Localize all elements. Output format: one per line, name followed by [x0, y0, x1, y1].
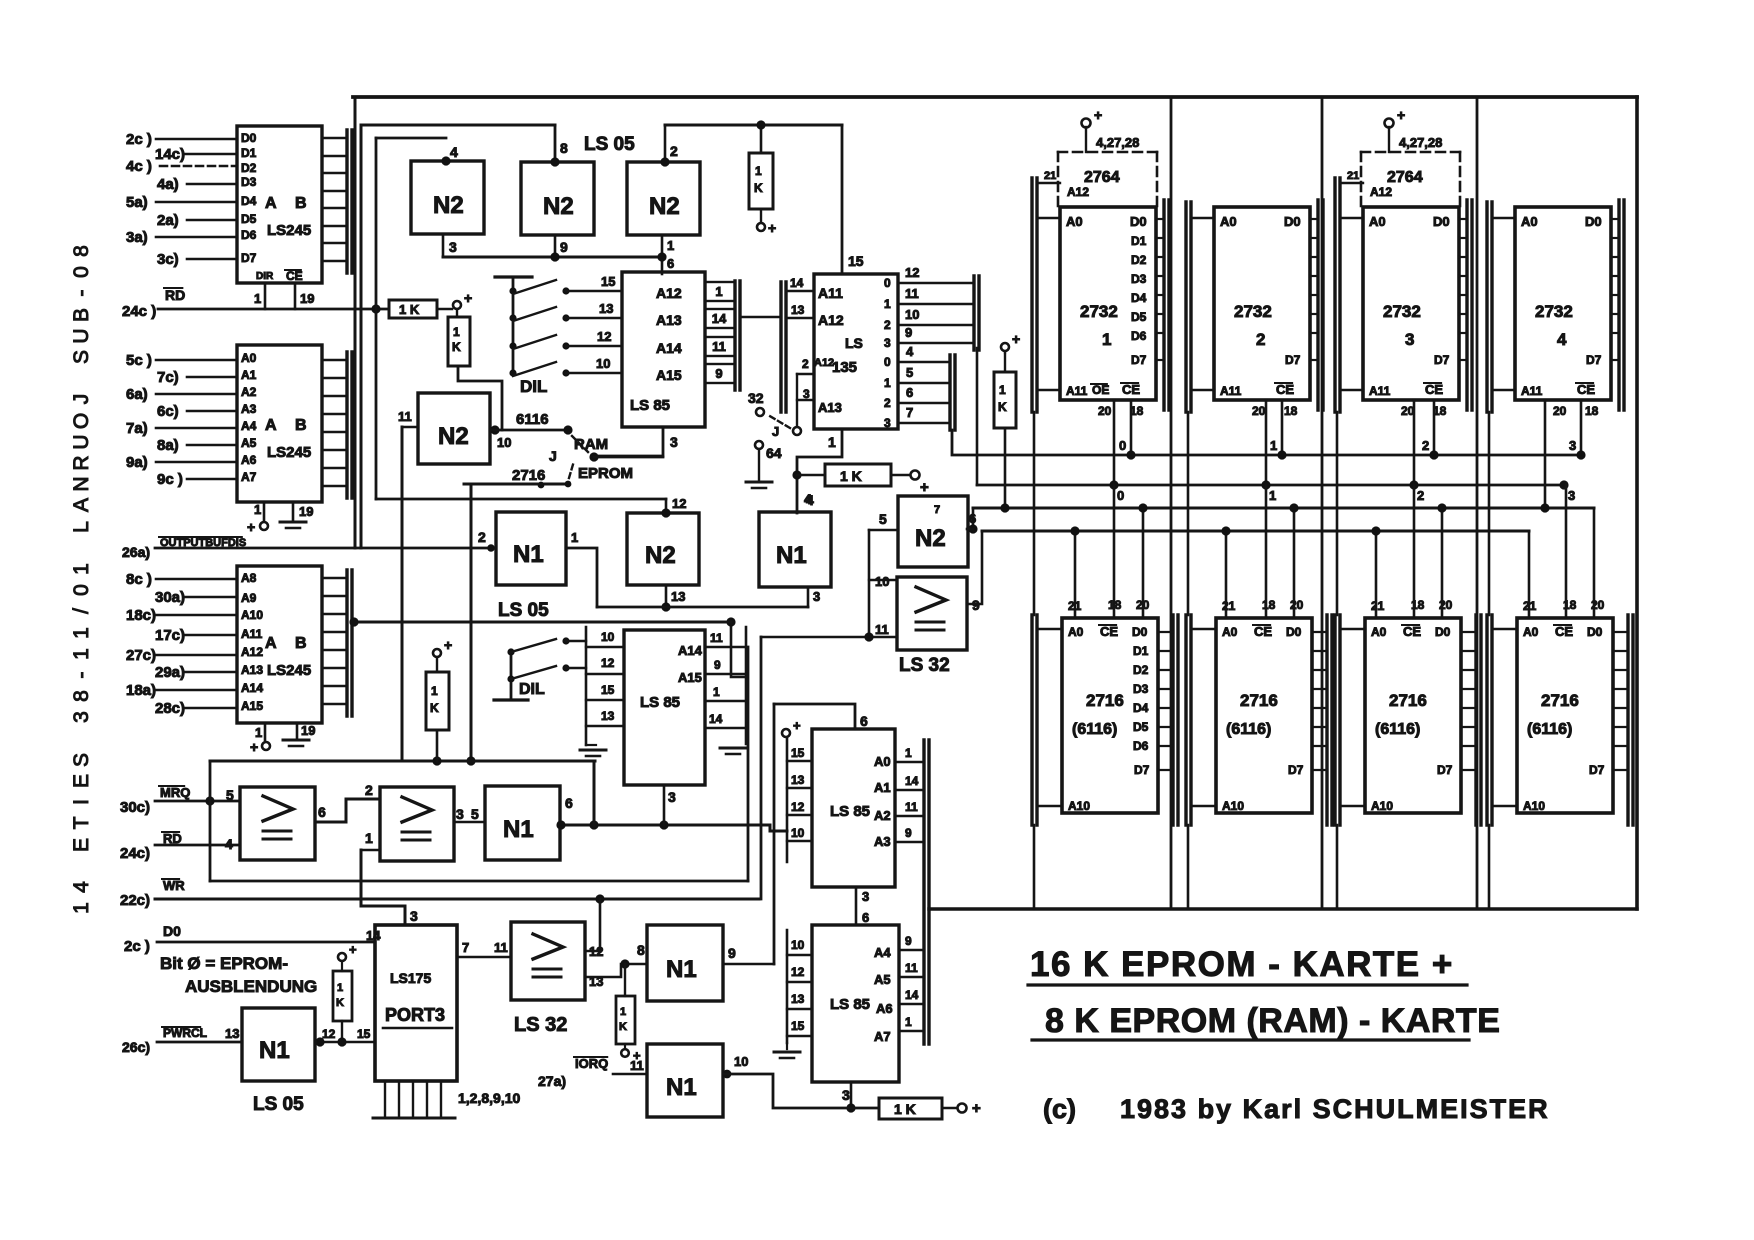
svg-text:11: 11 — [875, 622, 889, 637]
svg-text:D1: D1 — [1131, 234, 1147, 248]
svg-text:1 K: 1 K — [399, 302, 420, 317]
svg-text:1 K: 1 K — [840, 468, 862, 484]
svg-text:N1: N1 — [666, 956, 697, 983]
svg-text:T: T — [70, 816, 93, 829]
svg-text:18a): 18a) — [126, 682, 156, 699]
PORT3 output pin7 — [457, 956, 511, 959]
svg-text:A0: A0 — [1521, 214, 1538, 229]
svg-text:1: 1 — [828, 434, 836, 450]
svg-text:+: + — [349, 942, 357, 957]
svg-text:7: 7 — [934, 504, 940, 516]
svg-text:LS 32: LS 32 — [514, 1014, 567, 1036]
svg-text:U: U — [70, 434, 93, 449]
svg-text:PWRCL: PWRCL — [163, 1026, 207, 1040]
svg-text:9: 9 — [714, 658, 721, 672]
svg-text:A12: A12 — [656, 285, 682, 301]
svg-text:0: 0 — [70, 266, 93, 278]
bus bar left of U5 — [779, 282, 782, 412]
svg-text:1: 1 — [453, 325, 460, 339]
svg-text:1: 1 — [1269, 488, 1276, 503]
svg-text:AUSBLENDUNG: AUSBLENDUNG — [185, 977, 317, 996]
svg-text:K: K — [452, 340, 461, 354]
svg-text:9a): 9a) — [126, 454, 148, 471]
svg-text:A0: A0 — [1523, 625, 1539, 639]
svg-text:A0: A0 — [874, 754, 891, 769]
svg-text:B: B — [295, 195, 307, 212]
svg-text:3: 3 — [1569, 438, 1576, 453]
svg-text:12: 12 — [791, 800, 805, 814]
svg-text:1: 1 — [620, 1006, 626, 1018]
svg-text:12: 12 — [601, 656, 615, 670]
stub U4 bus to U5 bus — [740, 316, 781, 319]
svg-text:11: 11 — [905, 800, 918, 814]
decoder U5 LS135 — [814, 274, 898, 429]
U4 pin3 to EPROM jumper — [594, 427, 663, 456]
svg-text:12: 12 — [589, 944, 603, 959]
svg-text:K: K — [336, 997, 344, 1009]
svg-text:A2: A2 — [241, 385, 257, 399]
svg-text:A14: A14 — [678, 643, 703, 658]
comparator U6 LS85 — [624, 630, 705, 785]
svg-text:N2: N2 — [543, 193, 574, 220]
svg-text:N: N — [70, 476, 93, 491]
svg-text:A12: A12 — [241, 645, 263, 659]
wire pin18 drop — [1265, 485, 1268, 618]
svg-text:B: B — [70, 308, 93, 322]
svg-text:7: 7 — [906, 405, 913, 420]
svg-text:2: 2 — [365, 782, 373, 798]
svg-text:15: 15 — [357, 1027, 371, 1041]
svg-text:7: 7 — [462, 940, 469, 955]
gate N2b LS05 — [521, 162, 594, 235]
U14 left ladder — [786, 930, 789, 1043]
bus bar address — [1485, 202, 1488, 412]
svg-text:EPROM: EPROM — [578, 465, 633, 482]
svg-text:12: 12 — [905, 265, 919, 280]
svg-text:A0: A0 — [1066, 214, 1083, 229]
wire CE drop — [1281, 400, 1284, 455]
bus bar data — [1465, 200, 1468, 410]
connector +5V 2764 — [1082, 119, 1091, 128]
bus bar address — [1333, 178, 1336, 412]
svg-text:D7: D7 — [1288, 763, 1304, 777]
svg-text:1: 1 — [999, 383, 1006, 397]
gate N2c LS05 — [627, 162, 700, 235]
EPROM U10 2732-4 — [1515, 207, 1611, 400]
svg-text:13: 13 — [671, 589, 685, 604]
net CE-select row y455 — [952, 430, 1582, 455]
svg-text:12: 12 — [672, 496, 686, 511]
bus bar data 2716 — [1171, 615, 1174, 825]
gate G2 LS32 — [380, 787, 454, 861]
gate N2e LS05 — [627, 513, 699, 585]
svg-text:D0: D0 — [1585, 214, 1602, 229]
svg-text:10: 10 — [875, 574, 889, 589]
svg-text:J: J — [772, 424, 779, 439]
wire G4 pin13 to N1e pin8 — [585, 964, 647, 977]
resistor R9 1K — [879, 1098, 942, 1119]
svg-text:7a): 7a) — [126, 420, 148, 437]
wire to G3 pin10 — [869, 579, 897, 581]
svg-text:2: 2 — [802, 357, 809, 371]
svg-text:D0: D0 — [1284, 214, 1301, 229]
svg-text:A2: A2 — [874, 808, 891, 823]
svg-text:14: 14 — [709, 712, 723, 726]
svg-text:D0: D0 — [1433, 214, 1450, 229]
svg-text:D5: D5 — [1133, 720, 1149, 734]
svg-text:MRQ: MRQ — [160, 785, 190, 800]
svg-text:8: 8 — [560, 140, 568, 156]
svg-text:2: 2 — [1256, 330, 1265, 349]
svg-text:8: 8 — [70, 245, 93, 257]
U13 pin3 / U14 pin6 — [855, 887, 858, 925]
wire rail y621 — [354, 621, 731, 624]
svg-text:N2: N2 — [915, 525, 946, 552]
svg-text:D0: D0 — [1130, 214, 1147, 229]
svg-text:1: 1 — [1270, 438, 1277, 453]
svg-text:D1: D1 — [1133, 644, 1149, 658]
svg-text:+: + — [1397, 107, 1405, 123]
gate N1f LS05 IORQ — [647, 1044, 723, 1117]
svg-text:9: 9 — [905, 934, 912, 948]
svg-text:10: 10 — [905, 307, 919, 322]
svg-text:11: 11 — [905, 286, 919, 301]
svg-text:(6116): (6116) — [1527, 721, 1572, 738]
svg-text:14c): 14c) — [155, 146, 185, 163]
wire y499 to N2e pin12 — [376, 498, 666, 501]
svg-text:18c): 18c) — [126, 607, 156, 624]
svg-text:A: A — [265, 635, 277, 652]
svg-text:D6: D6 — [241, 228, 257, 242]
svg-text:6116: 6116 — [516, 411, 549, 428]
svg-text:2c ): 2c ) — [126, 131, 152, 148]
svg-text:11: 11 — [712, 339, 726, 354]
svg-text:A3: A3 — [874, 834, 891, 849]
svg-text:D7: D7 — [1589, 763, 1605, 777]
svg-text:K: K — [619, 1021, 627, 1033]
svg-text:(6116): (6116) — [1226, 721, 1271, 738]
wire x869 — [868, 530, 871, 637]
svg-text:-: - — [70, 672, 93, 679]
pin 19 of U2 ground — [292, 502, 295, 520]
U4 right pin boxes — [705, 282, 735, 301]
svg-text:A11: A11 — [1220, 384, 1242, 398]
svg-text:N1: N1 — [776, 542, 807, 569]
svg-text:J: J — [70, 394, 93, 405]
svg-text:+: + — [1094, 107, 1102, 123]
svg-text:K: K — [430, 701, 439, 715]
connector +5V R1 — [453, 301, 461, 309]
svg-text:LS 85: LS 85 — [630, 397, 670, 414]
svg-text:4: 4 — [450, 144, 458, 160]
svg-text:I: I — [70, 799, 93, 805]
svg-text:1: 1 — [255, 725, 262, 740]
svg-text:1 K: 1 K — [894, 1101, 916, 1117]
svg-text:9: 9 — [905, 826, 912, 840]
svg-text:10: 10 — [596, 356, 610, 371]
resistor R3 1K pull-up — [760, 125, 763, 153]
wire R2 to N2d output — [458, 366, 502, 430]
svg-text:20: 20 — [1252, 404, 1266, 418]
bus bar address — [1184, 202, 1187, 412]
resistor R7 1K — [338, 953, 346, 961]
svg-text:1,2,8,9,10: 1,2,8,9,10 — [458, 1090, 520, 1106]
svg-text:A5: A5 — [241, 436, 257, 450]
EPROM U9 2732-3 — [1363, 207, 1459, 400]
svg-text:4c ): 4c ) — [126, 158, 152, 175]
svg-text:3: 3 — [813, 589, 820, 604]
pin 1 of U2 with +0 — [263, 502, 266, 521]
wire pin18 drop — [1565, 485, 1568, 618]
svg-text:LS 32: LS 32 — [899, 655, 950, 676]
buffer U1 LS245 data bus — [237, 126, 322, 283]
svg-text:2732: 2732 — [1535, 302, 1573, 321]
svg-text:2764: 2764 — [1387, 169, 1423, 186]
svg-text:A0: A0 — [1369, 214, 1386, 229]
svg-text:PORT3: PORT3 — [385, 1005, 445, 1025]
svg-text:D4: D4 — [1133, 701, 1149, 715]
svg-text:13: 13 — [791, 992, 805, 1006]
svg-text:1: 1 — [1102, 330, 1111, 349]
svg-text:A10: A10 — [1523, 799, 1545, 813]
svg-text:5c ): 5c ) — [126, 352, 152, 369]
U6 pin3 — [663, 785, 666, 825]
svg-text:LS 05: LS 05 — [584, 134, 635, 155]
svg-text:A11: A11 — [1521, 384, 1543, 398]
svg-text:B: B — [295, 635, 307, 652]
svg-text:6: 6 — [906, 385, 913, 400]
svg-text:A13: A13 — [818, 400, 842, 415]
svg-text:LS: LS — [845, 335, 863, 351]
svg-text:27c): 27c) — [126, 647, 156, 664]
EPROM U7 2732-1 — [1060, 207, 1156, 400]
svg-text:11: 11 — [494, 940, 508, 955]
DIL switch S1 — [495, 275, 532, 278]
svg-text:+: + — [464, 290, 472, 306]
svg-text:2716: 2716 — [1541, 691, 1579, 710]
svg-text:S: S — [70, 753, 93, 767]
gate G1 LS32 — [240, 787, 315, 860]
svg-text:D0: D0 — [241, 131, 257, 145]
svg-text:3: 3 — [862, 889, 869, 904]
svg-text:15: 15 — [791, 746, 805, 760]
svg-text:D2: D2 — [1133, 663, 1149, 677]
svg-text:15: 15 — [601, 274, 615, 289]
svg-text:N2: N2 — [645, 542, 676, 569]
svg-text:A1: A1 — [241, 368, 257, 382]
svg-text:1: 1 — [713, 685, 720, 699]
bus bar data 2716 — [1474, 615, 1477, 825]
svg-text:CE: CE — [1100, 624, 1118, 639]
svg-text:A10: A10 — [1222, 799, 1244, 813]
wire vertical x210 — [209, 761, 212, 881]
svg-text:4,27,28: 4,27,28 — [1399, 135, 1442, 150]
svg-text:D2: D2 — [241, 161, 257, 175]
U5 pin1 to pull-up R4 — [797, 429, 842, 513]
svg-text:LS 05: LS 05 — [253, 1094, 304, 1115]
svg-text:18: 18 — [1585, 404, 1599, 418]
buffer U3 LS245 address high — [237, 566, 322, 723]
wire long vertical x402 — [401, 427, 404, 761]
svg-text:CE: CE — [1254, 624, 1272, 639]
svg-text:6c): 6c) — [157, 403, 179, 420]
svg-text:2764: 2764 — [1084, 169, 1120, 186]
svg-text:1: 1 — [715, 284, 722, 299]
svg-text:1: 1 — [70, 648, 93, 660]
svg-text:A11: A11 — [241, 627, 263, 641]
svg-text:-: - — [70, 290, 93, 297]
svg-text:2716: 2716 — [512, 467, 545, 484]
svg-text:6: 6 — [667, 256, 674, 271]
svg-text:LS245: LS245 — [267, 222, 311, 239]
svg-text:A: A — [265, 195, 277, 212]
gate N1b LS05 — [759, 512, 831, 587]
svg-text:A10: A10 — [1068, 799, 1090, 813]
wire wired-AND y257 — [443, 256, 662, 259]
svg-text:D7: D7 — [241, 251, 257, 265]
svg-text:K: K — [998, 400, 1007, 414]
svg-text:4: 4 — [1557, 330, 1567, 349]
svg-text:2c ): 2c ) — [124, 938, 150, 955]
svg-text:3: 3 — [1405, 330, 1414, 349]
svg-text:1: 1 — [70, 902, 93, 914]
svg-text:21: 21 — [1044, 170, 1056, 182]
svg-text:D3: D3 — [241, 175, 257, 189]
gate N2d LS05 — [418, 393, 490, 464]
svg-text:N2: N2 — [649, 193, 680, 220]
svg-text:N1: N1 — [503, 816, 534, 843]
svg-text:12: 12 — [322, 1027, 336, 1041]
svg-text:9c ): 9c ) — [157, 471, 183, 488]
svg-text:Bit Ø = EPROM-: Bit Ø = EPROM- — [160, 954, 288, 973]
svg-text:5: 5 — [471, 806, 479, 822]
svg-text:1: 1 — [884, 297, 891, 311]
svg-text:D3: D3 — [1131, 272, 1147, 286]
wire pin18 drop — [1413, 485, 1416, 618]
svg-text:12: 12 — [597, 329, 611, 344]
wire vertical x471 — [470, 484, 473, 761]
svg-text:S: S — [70, 350, 93, 364]
wire CE drop — [1433, 400, 1436, 455]
svg-text:1: 1 — [70, 563, 93, 575]
RAM U14 2716-4 — [1517, 618, 1613, 813]
wire right border rail — [1635, 97, 1639, 909]
svg-text:10: 10 — [734, 1054, 748, 1069]
svg-text:E: E — [70, 838, 93, 852]
svg-text:4,27,28: 4,27,28 — [1096, 135, 1139, 150]
svg-text:WR: WR — [163, 878, 185, 893]
gate G4 LS32 — [511, 922, 585, 1000]
svg-text:1: 1 — [905, 1015, 912, 1029]
svg-text:21: 21 — [1523, 599, 1537, 613]
wire OE drop — [1265, 400, 1268, 485]
gate N1d LS05 PWRCL — [242, 1008, 315, 1081]
svg-text:OE: OE — [1092, 383, 1109, 397]
svg-text:1: 1 — [365, 830, 373, 846]
svg-text:A12: A12 — [1067, 185, 1089, 199]
svg-text:LS 85: LS 85 — [830, 803, 870, 820]
svg-text:4: 4 — [906, 344, 914, 359]
svg-text:3: 3 — [842, 1087, 850, 1103]
svg-text:9: 9 — [560, 239, 568, 255]
RAM U12 2716-2 — [1216, 618, 1312, 813]
svg-text:N2: N2 — [433, 192, 464, 219]
svg-text:3: 3 — [670, 434, 678, 450]
U6 left ladder — [585, 627, 588, 745]
bus bar data 2716 — [1325, 615, 1328, 825]
svg-text:0: 0 — [884, 276, 891, 290]
wire rail y125 left — [361, 124, 555, 127]
svg-text:D0: D0 — [1132, 625, 1148, 639]
svg-text:6: 6 — [565, 795, 573, 811]
svg-text:11: 11 — [905, 961, 918, 975]
svg-text:6: 6 — [860, 713, 868, 729]
svg-text:2: 2 — [884, 318, 891, 332]
svg-text:14: 14 — [366, 928, 381, 943]
svg-text:3: 3 — [1568, 488, 1575, 503]
svg-text:1: 1 — [884, 376, 891, 390]
svg-text:3: 3 — [884, 416, 891, 430]
gate N1e LS05 — [647, 925, 723, 1001]
svg-text:A9: A9 — [241, 591, 257, 605]
svg-text:A4: A4 — [874, 945, 891, 960]
svg-text:14: 14 — [790, 276, 804, 290]
svg-text:11: 11 — [398, 409, 412, 424]
svg-text:(c): (c) — [1043, 1094, 1076, 1124]
U13 right ladder — [922, 740, 925, 1044]
svg-text:D7: D7 — [1131, 353, 1147, 367]
DIL switch S2 — [494, 698, 528, 701]
svg-text:LS 85: LS 85 — [640, 694, 680, 711]
wire EPROM jumper to U4 pin3 — [594, 456, 663, 459]
svg-text:11: 11 — [710, 631, 723, 645]
svg-text:A7: A7 — [241, 470, 257, 484]
svg-text:8: 8 — [70, 690, 93, 702]
gate N2a LS05 — [411, 161, 484, 234]
resistor R6 1K pull-up — [1004, 349, 1006, 353]
connector +5V 2764 — [1385, 119, 1394, 128]
svg-text:135: 135 — [832, 359, 857, 376]
svg-text:LS245: LS245 — [267, 444, 311, 461]
svg-text:D5: D5 — [1131, 310, 1147, 324]
svg-text:A15: A15 — [656, 367, 682, 383]
resistor R2 1K vertical — [456, 309, 458, 317]
svg-text:2732: 2732 — [1383, 302, 1421, 321]
svg-text:9: 9 — [715, 366, 722, 381]
svg-text:D6: D6 — [1131, 329, 1147, 343]
svg-text:2716: 2716 — [1389, 691, 1427, 710]
wire U5 pin15 from rail — [841, 125, 844, 274]
svg-text:+: + — [250, 739, 258, 755]
svg-text:D7: D7 — [1134, 763, 1150, 777]
svg-text:3a): 3a) — [126, 229, 148, 246]
svg-text:17c): 17c) — [155, 627, 185, 644]
svg-text:A3: A3 — [241, 402, 257, 416]
gate N1a LS05 — [496, 512, 566, 585]
RAM U13 2716-3 — [1365, 618, 1461, 813]
wire riser x594 — [593, 763, 596, 825]
net OE-select row y485 — [976, 348, 979, 485]
RAM U11 2716-1 — [1062, 618, 1158, 813]
svg-text:D6: D6 — [1133, 739, 1149, 753]
svg-text:7c): 7c) — [157, 369, 179, 386]
svg-text:A14: A14 — [241, 681, 263, 695]
svg-text:32: 32 — [748, 390, 764, 406]
wire pin20 drop — [1441, 508, 1444, 618]
svg-text:9: 9 — [905, 325, 912, 340]
wire y607 — [597, 606, 808, 609]
wire G3 pin11 — [761, 636, 897, 639]
